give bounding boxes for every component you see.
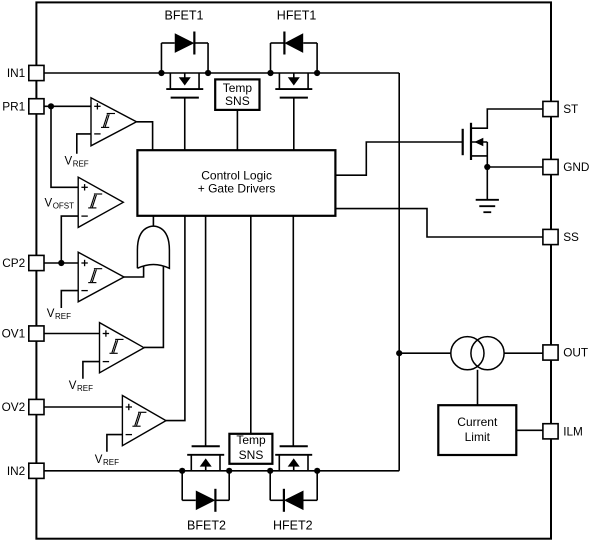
pin OV1 [2,326,44,341]
wire BFET2 gate [205,216,207,447]
svg-text:OUT: OUT [563,346,588,360]
svg-text:IN1: IN1 [7,66,25,80]
pin IN2 [7,463,44,478]
svg-text:V: V [95,454,103,466]
node PR1 junction [48,103,54,109]
wire OV1 to comparator U4 + input [44,333,100,335]
wire control logic to SS pin [335,209,544,237]
ground [476,200,499,212]
svg-text:SS: SS [563,230,579,244]
wire right vertical bus from IN1 rail to IN2 rail [398,73,400,471]
comparator U2 offset [78,177,123,227]
svg-text:BFET2: BFET2 [187,518,226,532]
wire HFET2 gate [292,216,294,447]
wire current source to current limit [477,370,479,405]
wire OV2 to comparator U5 + input [44,406,123,408]
comparator U5 OV2 [122,396,166,446]
svg-text:V: V [65,155,73,167]
node CP2 junction [58,260,64,266]
svg-text:V: V [45,198,53,210]
wire U4 Vref stub [83,362,100,379]
svg-text:OV1: OV1 [2,327,26,341]
comparator U3 CP2 [78,252,124,302]
label U5 Vref [95,454,119,467]
svg-text:Temp: Temp [223,81,253,95]
pin OUT [543,345,588,360]
wire HFET1 gate [293,98,295,151]
svg-text:Current: Current [457,415,498,429]
pin OV2 [2,399,44,414]
svg-text:HFET2: HFET2 [273,518,313,532]
label U1 Vref [65,155,89,168]
svg-text:Control Logic: Control Logic [201,169,272,183]
transistor HFET1 with body diode [267,32,320,98]
svg-text:ILM: ILM [563,424,583,438]
comparator U4 OV1 [100,323,145,373]
wire CP2 to comparator U3 + input [44,262,78,264]
label U3 Vref [47,308,71,321]
wire PR1 to comparator U1 + input [44,105,91,107]
svg-text:Temp: Temp [236,433,266,447]
label HFET2 [273,518,313,532]
svg-text:GND: GND [563,160,589,174]
OR gate G1 [137,226,169,268]
wire OR gate output to control logic [152,216,154,227]
svg-text:OFST: OFST [53,202,74,211]
comparator U1 PR1 [91,98,137,146]
transistor BFET1 with body diode [158,32,211,98]
svg-text:+ Gate Drivers: + Gate Drivers [198,182,276,196]
wire U5 output up to control logic [166,216,185,421]
label BFET2 [187,518,226,532]
block current limit [438,405,516,455]
pin IN1 [7,65,44,80]
block control logic U6 [137,150,335,216]
wire U2 - input to CP2 net (V_OFST) [61,216,78,263]
wire U4 output to OR gate input B [144,266,163,348]
svg-text:REF: REF [103,458,119,467]
pin CP2 [2,255,44,270]
node OUT branch junction [396,350,402,356]
transistor HFET2 with body diode [267,446,320,512]
label V_OFST [45,198,75,211]
transistor Q1 status FET [463,109,544,199]
wire current source to OUT pin [504,352,543,354]
svg-text:SNS: SNS [239,448,264,462]
svg-text:REF: REF [55,312,71,321]
svg-text:V: V [47,308,55,320]
svg-text:CP2: CP2 [2,256,25,270]
wire BFET1 gate [184,98,186,151]
svg-text:OV2: OV2 [2,400,26,414]
svg-text:Limit: Limit [465,430,491,444]
transistor BFET2 with body diode [179,446,232,512]
pin GND [543,159,590,174]
wire IN2 rail [44,470,400,472]
svg-text:V: V [69,380,77,392]
pin PR1 [2,99,44,114]
pin ILM [543,424,583,439]
wire U3 Vref stub [61,291,78,308]
svg-text:IN2: IN2 [7,464,25,478]
current source B1 [451,337,504,370]
wire current limit to ILM pin [516,429,543,431]
svg-text:REF: REF [77,384,93,393]
block Temp SNS bottom [229,433,272,464]
wire PR1 down to comparator U2 + input [51,106,78,187]
wire control logic to ST transistor gate [335,142,463,175]
wire Temp SNS top to control logic [236,110,238,151]
wire U5 Vref stub [107,435,123,452]
wire IN1 rail [44,72,400,74]
svg-text:HFET1: HFET1 [277,9,317,23]
svg-text:REF: REF [73,160,89,169]
wire U1 output to control logic [137,122,153,151]
svg-text:SNS: SNS [225,94,250,108]
wire U1 Vref stub [77,134,91,154]
wire control logic to Temp SNS bottom [250,216,252,434]
label BFET1 [165,9,204,23]
wire OUT branch to current source [399,352,451,354]
pin SS [543,229,579,244]
label U4 Vref [69,380,93,393]
svg-text:ST: ST [563,102,578,116]
block Temp SNS top [215,79,259,110]
svg-text:PR1: PR1 [2,99,25,113]
wire U3 output to OR gate input A [124,266,144,278]
label HFET1 [277,9,317,23]
svg-text:BFET1: BFET1 [165,9,204,23]
pin ST [543,101,578,116]
